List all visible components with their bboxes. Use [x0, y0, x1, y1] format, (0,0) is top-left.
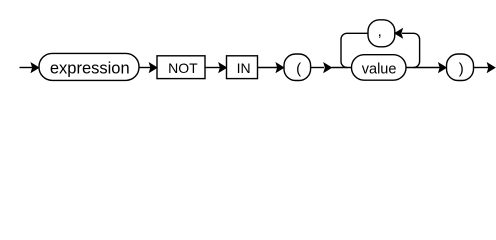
wire: IN to ( [258, 67, 278, 69]
wire: loop back path right riser [402, 33, 420, 67]
svg-text:IN: IN [237, 60, 251, 76]
wire: ( to loop junction [311, 67, 324, 69]
svg-text:expression: expression [50, 60, 130, 78]
svg-text:value: value [362, 62, 397, 78]
node ( (terminal bubble) [284, 54, 311, 81]
wire: exit line [474, 67, 490, 69]
svg-text:(: ( [296, 60, 301, 77]
arrowhead: into ( [276, 63, 284, 72]
arrowhead: before value loop [324, 63, 332, 72]
node value (nonterminal bubble) [352, 55, 407, 80]
arrowhead: into IN [219, 63, 227, 72]
wire: entry line [20, 67, 34, 69]
node NOT (keyword box) [157, 56, 205, 79]
arrowhead: into ) [439, 63, 447, 72]
arrowhead: into NOT [149, 63, 157, 72]
wire: value to ) [406, 67, 440, 69]
wire: loop junction to value [332, 67, 352, 69]
node expression (nonterminal bubble) [39, 53, 139, 80]
arrowhead: entry into expression [31, 63, 39, 72]
wire: expression to NOT [139, 67, 151, 69]
arrowhead: exit [487, 63, 495, 72]
arrowhead: into , (pointing left) [395, 29, 403, 38]
node ) (terminal bubble) [447, 54, 474, 81]
svg-text:): ) [459, 60, 464, 77]
wire: NOT to IN [205, 67, 221, 69]
node IN (keyword box) [227, 56, 258, 79]
node , (separator bubble) [368, 20, 395, 47]
wire: loop back path left riser [341, 33, 368, 67]
svg-text:NOT: NOT [168, 60, 198, 76]
svg-text:,: , [378, 23, 382, 40]
